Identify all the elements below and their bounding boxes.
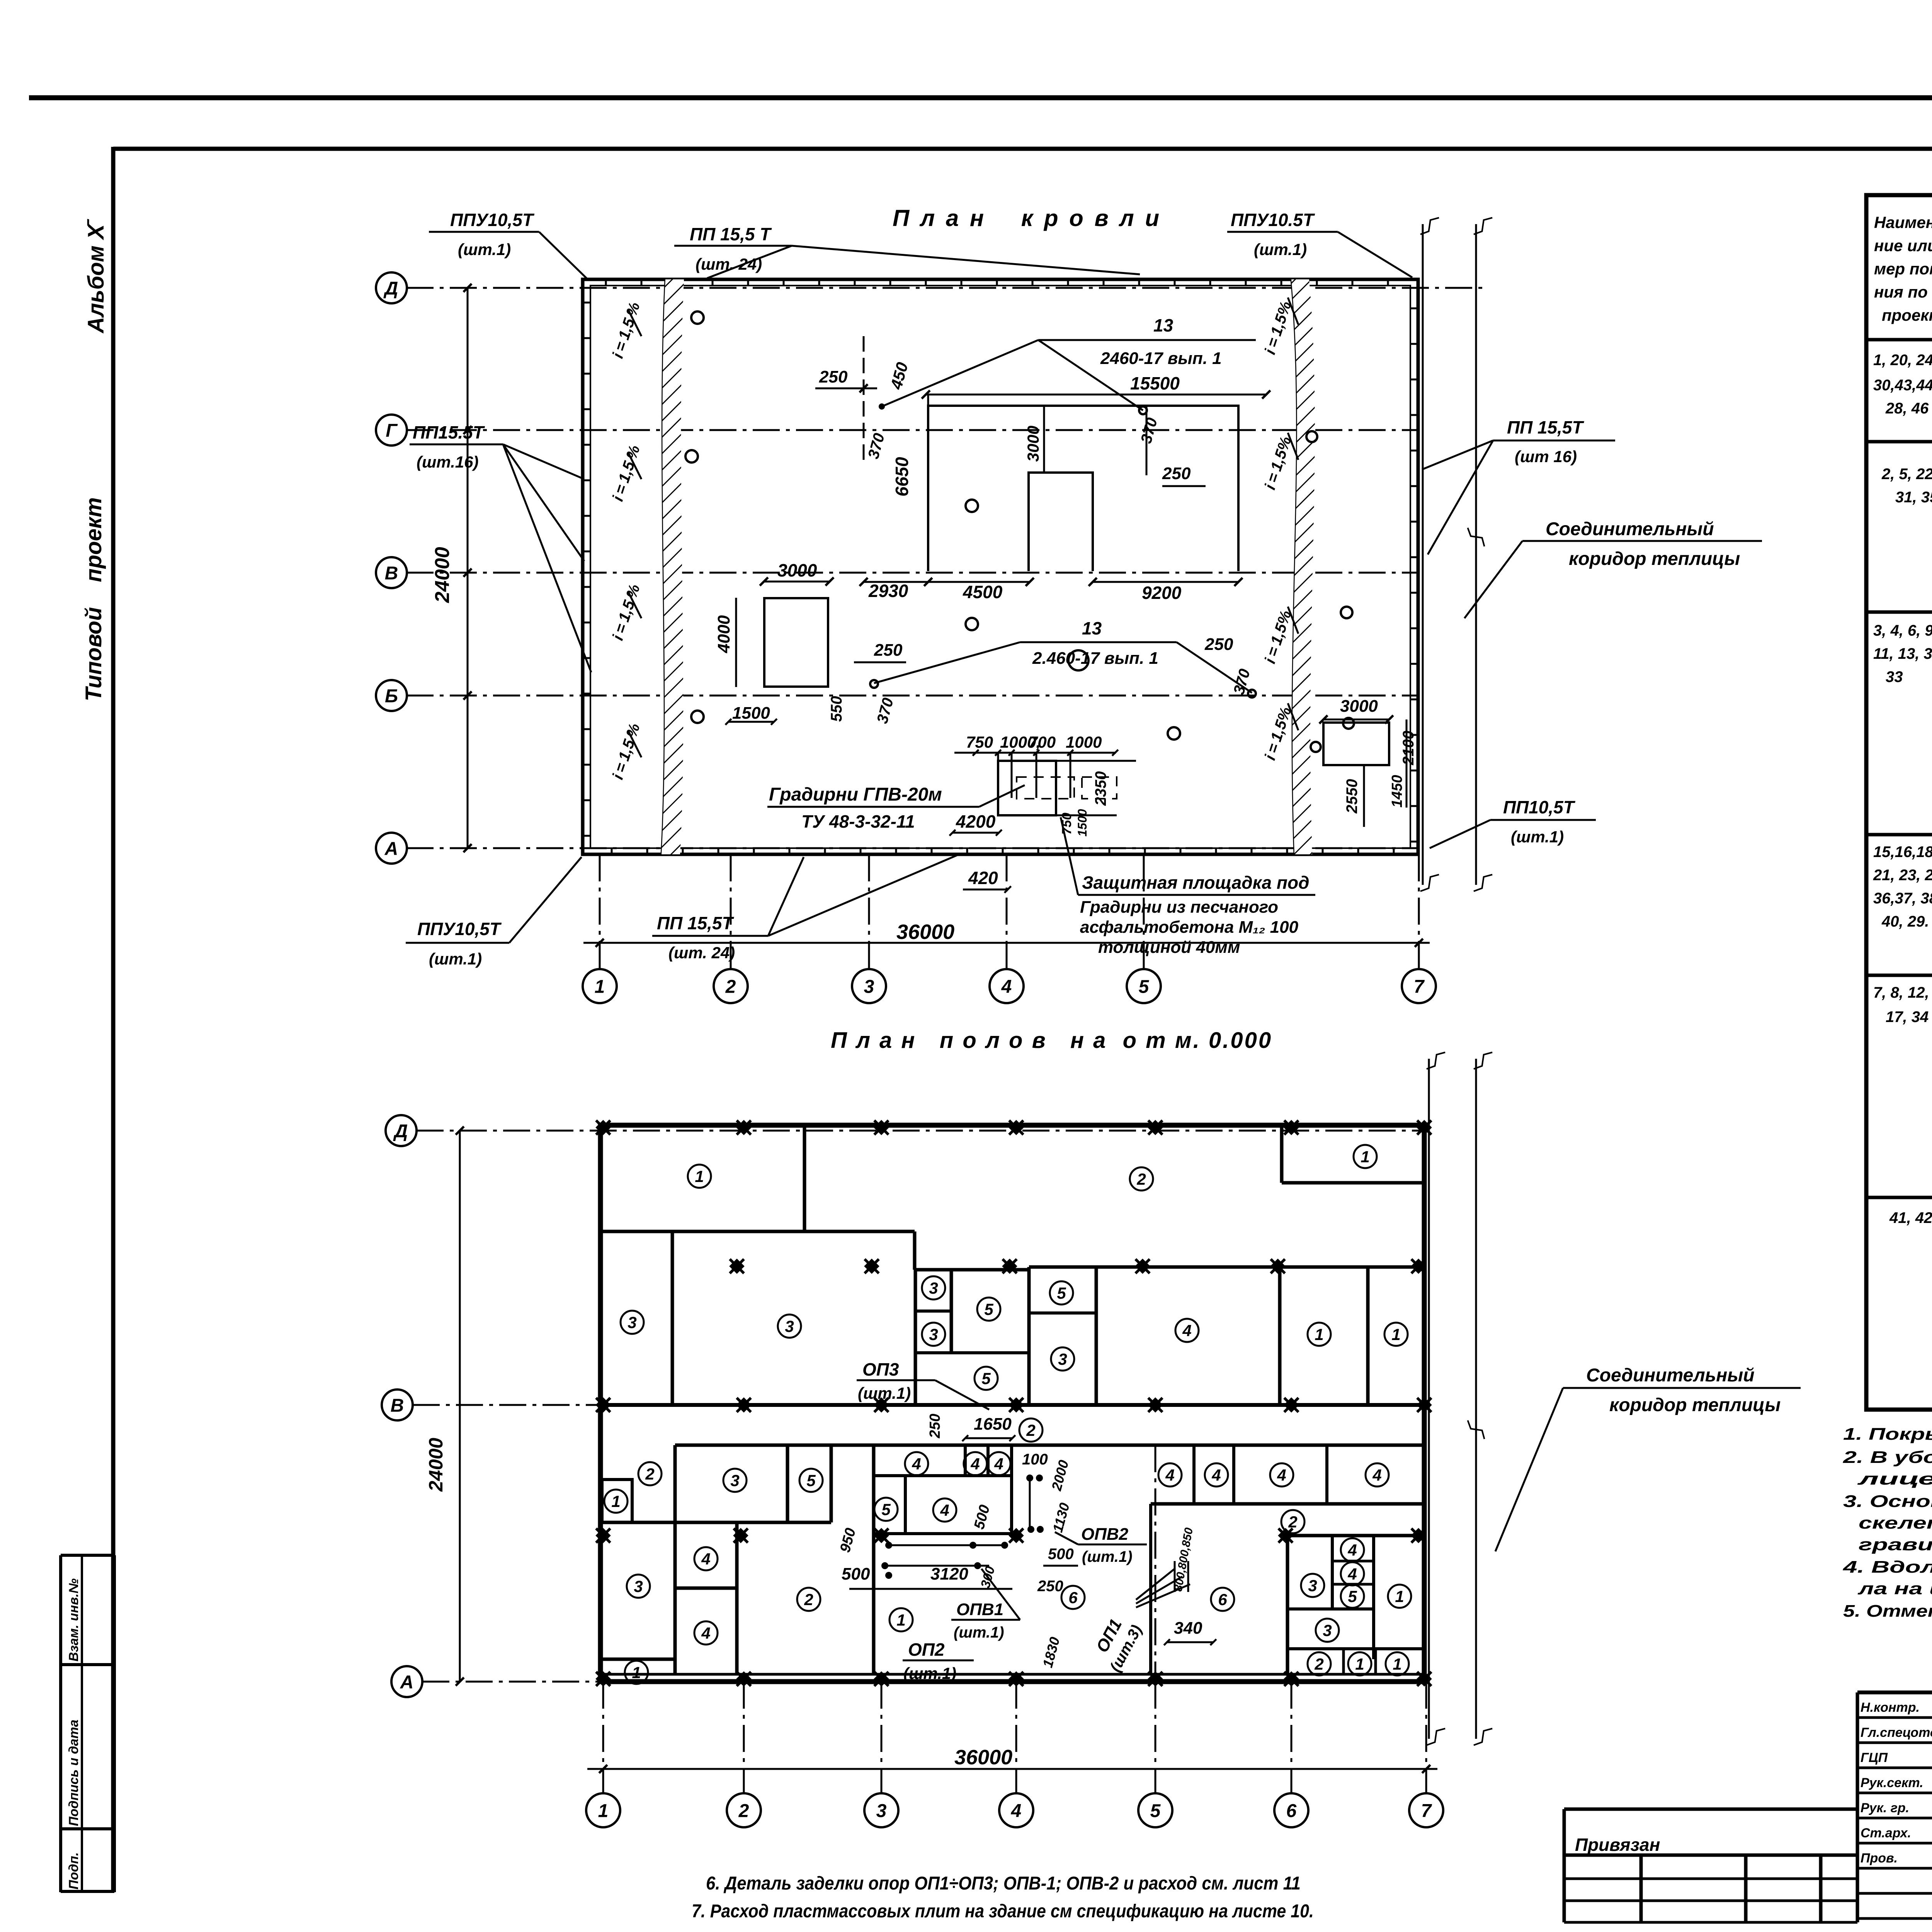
column mark intermediate row 2 x=1917 bbox=[726, 1521, 755, 1550]
roof dimension line 36000 bbox=[583, 942, 1430, 944]
roof drain/ring circle at 3405,1933 bbox=[1311, 742, 1321, 752]
roof drain/ring circle at 3395,1130 bbox=[1306, 431, 1317, 442]
svg-text:6650: 6650 bbox=[892, 457, 912, 497]
roof right equipment rect bbox=[1323, 723, 1389, 765]
roof column circle 1 bbox=[583, 969, 617, 1003]
floor column circle 4 bbox=[999, 1793, 1033, 1827]
floor column circle 7 bbox=[1409, 1793, 1443, 1827]
floor axis line А bbox=[422, 1681, 1424, 1683]
svg-text:4000: 4000 bbox=[714, 615, 733, 653]
svg-text:3, 4, 6, 9, 10,: 3, 4, 6, 9, 10, bbox=[1873, 622, 1932, 639]
floor room type 3 circle at 1636,3422 bbox=[621, 1311, 644, 1334]
svg-text:2, 5, 22, 25: 2, 5, 22, 25 bbox=[1881, 466, 1932, 483]
svg-text:толщиной 40мм: толщиной 40мм bbox=[1098, 938, 1240, 957]
svg-text:3: 3 bbox=[929, 1279, 938, 1297]
svg-text:П л а н к р о в л и: П л а н к р о в л и bbox=[893, 205, 1162, 231]
floor room type 4 circle at 2445,3908 bbox=[933, 1498, 956, 1522]
svg-text:4: 4 bbox=[1165, 1466, 1174, 1484]
floor outer wall bbox=[600, 1125, 1424, 1682]
svg-text:1: 1 bbox=[1315, 1325, 1323, 1344]
svg-text:3: 3 bbox=[785, 1317, 794, 1335]
svg-text:Пров.: Пров. bbox=[1861, 1851, 1898, 1866]
svg-text:250: 250 bbox=[819, 367, 848, 386]
floor room type 4 circle at 3072,3443 bbox=[1175, 1319, 1199, 1342]
floor wall: divider y3398 bbox=[1029, 1311, 1096, 1315]
roof drain/ring circle at 3240,1795 bbox=[1248, 690, 1256, 697]
svg-text:Градирни из песчаного: Градирни из песчаного bbox=[1080, 898, 1278, 917]
column mark intermediate row 2 x=1561 bbox=[589, 1521, 617, 1550]
floor room type 4 circle at 3148,3817 bbox=[1205, 1463, 1228, 1486]
svg-text:1: 1 bbox=[1391, 1325, 1400, 1344]
column mark intermediate row 2 x=3671 bbox=[1404, 1521, 1433, 1550]
roof drain/ring circle at 3038,1898 bbox=[1168, 727, 1180, 740]
roof wall panel ticks top bbox=[605, 279, 607, 286]
svg-text:2: 2 bbox=[1136, 1170, 1146, 1188]
floor wall: x2343 bbox=[904, 1476, 907, 1534]
floor room type 2 circle at 3414,4306 bbox=[1308, 1652, 1331, 1675]
svg-text:В: В bbox=[385, 563, 398, 583]
floor room type 4 circle at 2585,3788 bbox=[987, 1452, 1010, 1475]
svg-text:21, 23, 26,: 21, 23, 26, bbox=[1873, 867, 1932, 884]
svg-text:13: 13 bbox=[1153, 315, 1173, 335]
roof vertical dimension 24000 bbox=[467, 288, 469, 848]
column mark intermediate row 1 x=2957 bbox=[1128, 1252, 1157, 1281]
svg-text:асфальтобетона М₁₂ 100: асфальтобетона М₁₂ 100 bbox=[1080, 918, 1299, 937]
roof column axis stubs and circles bbox=[599, 854, 601, 968]
svg-text:5: 5 bbox=[1139, 976, 1150, 997]
svg-text:3120: 3120 bbox=[930, 1565, 968, 1583]
svg-text:3: 3 bbox=[1058, 1350, 1067, 1368]
svg-text:2460-17 вып. 1: 2460-17 вып. 1 bbox=[1100, 349, 1222, 368]
roof drain/ring circle at 1805,1855 bbox=[691, 711, 704, 723]
svg-text:Д: Д bbox=[393, 1121, 408, 1141]
column mark axis Д x=2990 bbox=[1141, 1113, 1170, 1142]
svg-text:(шт.1): (шт.1) bbox=[858, 1384, 911, 1402]
svg-text:ПП 15,5Т: ПП 15,5Т bbox=[1507, 417, 1584, 437]
column mark axis А x=2281 bbox=[867, 1665, 896, 1693]
column mark axis В x=1561 bbox=[589, 1391, 617, 1419]
floor wall: x2261 vertical bbox=[872, 1445, 876, 1674]
roof column circle 5 bbox=[1127, 969, 1161, 1003]
svg-text:Привязан: Привязан bbox=[1575, 1835, 1660, 1855]
floor wall: top-right notch vertical bbox=[1280, 1125, 1284, 1183]
floor wall: y3940 центр bbox=[675, 1521, 831, 1524]
floor wall: x1907 vertical bbox=[735, 1522, 739, 1674]
column mark axis Д x=2630 bbox=[1002, 1113, 1031, 1142]
svg-text:(шт.1): (шт.1) bbox=[1511, 828, 1564, 846]
svg-text:5: 5 bbox=[984, 1300, 993, 1318]
floor room type 3 circle at 1902,3831 bbox=[723, 1469, 747, 1492]
roof axis circle Д bbox=[376, 272, 407, 303]
floor wall: y3940 left bbox=[600, 1521, 675, 1524]
svg-text:500: 500 bbox=[842, 1565, 870, 1583]
column mark intermediate row 1 x=1907 bbox=[723, 1252, 751, 1281]
svg-text:(шт.1): (шт.1) bbox=[429, 950, 482, 968]
svg-text:А: А bbox=[384, 838, 398, 859]
greenhouse corridor lines (roof) bbox=[1422, 224, 1424, 885]
svg-text:В: В bbox=[391, 1395, 404, 1416]
floor axis line Д bbox=[417, 1130, 1424, 1132]
column mark axis В x=2990 bbox=[1141, 1391, 1170, 1419]
floor wall: rooms 3/5 band verticals bbox=[786, 1445, 789, 1522]
floor wall: room1/room2 divider vertical bbox=[803, 1125, 806, 1231]
floor wall: 4-band y3892 right bbox=[1151, 1502, 1424, 1506]
svg-text:2: 2 bbox=[645, 1465, 654, 1483]
floor room type 1 circle at 3414,3453 bbox=[1308, 1323, 1331, 1346]
floor wall: x3332 vertical bbox=[1286, 1536, 1289, 1674]
roof slope hatch right bbox=[1291, 279, 1315, 854]
svg-text:А: А bbox=[400, 1672, 414, 1692]
floor room type 2 circle at 2093,4139 bbox=[797, 1588, 820, 1611]
svg-text:Ст.арх.: Ст.арх. bbox=[1861, 1826, 1911, 1840]
column mark intermediate row 2 x=2630 bbox=[1002, 1521, 1031, 1550]
svg-text:3: 3 bbox=[1308, 1577, 1317, 1595]
svg-text:7: 7 bbox=[1421, 1801, 1432, 1821]
svg-text:250: 250 bbox=[1037, 1578, 1063, 1595]
roof drain/ring circle at 1790,1181 bbox=[685, 450, 698, 463]
svg-text:Защитная площадка под: Защитная площадка под bbox=[1082, 872, 1310, 893]
floor vertical dimension 24000 bbox=[459, 1131, 461, 1682]
svg-text:Г: Г bbox=[386, 420, 398, 441]
column mark axis А x=3686 bbox=[1410, 1665, 1439, 1693]
floor room type 3 circle at 2416,3453 bbox=[922, 1323, 945, 1346]
svg-text:(шт.16): (шт.16) bbox=[417, 453, 479, 471]
svg-text:31, 35: 31, 35 bbox=[1895, 489, 1932, 506]
roof axis line А bbox=[406, 847, 1418, 849]
roof wall panel ticks left bbox=[583, 302, 590, 304]
svg-text:ния по: ния по bbox=[1874, 283, 1928, 301]
svg-text:(шт.1): (шт.1) bbox=[1082, 1548, 1133, 1565]
svg-text:Н.контр.: Н.контр. bbox=[1861, 1700, 1920, 1715]
floor wall: small rooms divider y3393 bbox=[915, 1310, 951, 1313]
svg-text:40, 29.: 40, 29. bbox=[1881, 913, 1929, 930]
floor room type 1 circle at 3613,3453 bbox=[1384, 1323, 1408, 1346]
floor room type 1 circle at 3616,4306 bbox=[1386, 1652, 1409, 1675]
svg-text:5: 5 bbox=[981, 1369, 991, 1388]
svg-text:5: 5 bbox=[881, 1500, 891, 1519]
floor wall: y4267 bbox=[1287, 1647, 1424, 1650]
floor column circle 2 bbox=[727, 1793, 761, 1827]
floor column circle 5 bbox=[1138, 1793, 1172, 1827]
svg-text:2: 2 bbox=[1314, 1655, 1323, 1673]
svg-text:мер помеще-: мер помеще- bbox=[1874, 260, 1932, 278]
svg-text:6. Деталь заделки опор ОП1: 6. Деталь заделки опор ОП1÷ОП3; ОПВ-1; О… bbox=[706, 1873, 1301, 1894]
floor room type 1 circle at 3622,4131 bbox=[1388, 1585, 1411, 1608]
floor room type 1 circle at 1647,4328 bbox=[625, 1661, 648, 1684]
frame left border bbox=[111, 147, 116, 1892]
column mark axis А x=2630 bbox=[1002, 1665, 1031, 1693]
svg-text:5: 5 bbox=[1057, 1284, 1066, 1302]
svg-text:500: 500 bbox=[1048, 1546, 1074, 1563]
floor wall: divider x3540 bbox=[1366, 1267, 1370, 1405]
floor room type 3 circle at 3397,4103 bbox=[1301, 1574, 1324, 1597]
roof drain/ring circle at 2515,1615 bbox=[966, 618, 978, 630]
column mark intermediate row 1 x=3671 bbox=[1404, 1252, 1433, 1281]
svg-text:(шт.1): (шт.1) bbox=[1254, 240, 1307, 259]
floor room type 2 circle at 3346,3938 bbox=[1281, 1510, 1304, 1533]
svg-text:30,43,44,45.: 30,43,44,45. bbox=[1873, 377, 1932, 394]
floor wall: bottom small verticals bbox=[1342, 1649, 1345, 1674]
svg-text:ПП15.5Т: ПП15.5Т bbox=[413, 422, 485, 442]
floor wall: y3974 right bbox=[1286, 1534, 1424, 1537]
floor wall: step vertical x2367 bbox=[913, 1231, 917, 1270]
roof axis circle Г bbox=[376, 415, 407, 446]
svg-text:550: 550 bbox=[828, 696, 845, 722]
roof axis line Д bbox=[406, 287, 1482, 289]
roof wall panel ticks bottom bbox=[611, 848, 613, 854]
svg-text:лицевую поверхность.: лицевую поверхность. bbox=[1857, 1469, 1932, 1488]
svg-text:5: 5 bbox=[1348, 1587, 1357, 1605]
svg-text:Б: Б bbox=[385, 686, 398, 706]
floor column circle 6 bbox=[1274, 1793, 1308, 1827]
svg-text:1450: 1450 bbox=[1389, 775, 1405, 808]
svg-text:4: 4 bbox=[1011, 1801, 1022, 1821]
floor room type 4 circle at 3500,4073 bbox=[1341, 1562, 1364, 1585]
svg-text:340: 340 bbox=[1174, 1619, 1202, 1638]
svg-text:1500: 1500 bbox=[732, 704, 770, 723]
floor wall: 4-rooms band top right of x2261 bbox=[874, 1474, 1012, 1477]
floor wall: left rooms divider x1740 bbox=[671, 1231, 674, 1405]
floor room type 1 circle at 2332,4192 bbox=[889, 1608, 913, 1631]
roof axis line Г bbox=[406, 429, 1418, 431]
corridor mid break (floor) bbox=[1468, 1417, 1485, 1442]
column mark axis А x=2990 bbox=[1141, 1665, 1170, 1693]
svg-text:(шт.1): (шт.1) bbox=[458, 240, 511, 259]
floor wall: right band top y3279 bbox=[1029, 1265, 1424, 1269]
svg-text:5. Отметки, места расположен: 5. Отметки, места расположения трапов - … bbox=[1843, 1602, 1932, 1621]
floor room type 4 circle at 3028,3817 bbox=[1158, 1463, 1182, 1486]
roof drain/ring circle at 3490,1872 bbox=[1343, 718, 1354, 729]
floor room type 4 circle at 3564,3817 bbox=[1366, 1463, 1389, 1486]
svg-text:3000: 3000 bbox=[1024, 426, 1042, 462]
svg-text:1: 1 bbox=[632, 1663, 641, 1682]
svg-text:ПП10,5Т: ПП10,5Т bbox=[1503, 797, 1576, 817]
svg-text:4: 4 bbox=[970, 1455, 980, 1473]
floor room type 1 circle at 3533,2993 bbox=[1354, 1145, 1377, 1168]
column mark axis А x=3342 bbox=[1277, 1665, 1306, 1693]
floor room type 2 circle at 2954,3051 bbox=[1130, 1167, 1153, 1190]
svg-text:24000: 24000 bbox=[425, 1438, 447, 1492]
svg-text:41, 42: 41, 42 bbox=[1889, 1209, 1932, 1226]
floor axis 5 segment in plan bbox=[1155, 1445, 1156, 1674]
svg-text:6: 6 bbox=[1286, 1801, 1297, 1821]
column mark axis В x=2630 bbox=[1002, 1391, 1031, 1419]
column mark axis Д x=1925 bbox=[730, 1113, 758, 1142]
floor axis circle А bbox=[391, 1666, 422, 1697]
svg-text:250: 250 bbox=[1204, 635, 1233, 654]
svg-text:1, 20, 24, 27.: 1, 20, 24, 27. bbox=[1873, 352, 1932, 369]
roof column circle 2 bbox=[714, 969, 748, 1003]
floor wall: divider x2837 bbox=[1095, 1267, 1098, 1405]
floor dimension line 36000 bbox=[587, 1768, 1437, 1770]
svg-text:1: 1 bbox=[1393, 1655, 1401, 1673]
floor wall: y3969 bbox=[874, 1532, 1012, 1535]
column mark axis Д x=2281 bbox=[867, 1113, 896, 1142]
svg-text:4: 4 bbox=[701, 1624, 710, 1642]
roof wall panel ticks right bbox=[1410, 308, 1418, 310]
roof inner wall line bbox=[590, 286, 1410, 848]
svg-text:15500: 15500 bbox=[1130, 373, 1180, 393]
svg-text:11, 13, 32,: 11, 13, 32, bbox=[1873, 645, 1932, 662]
svg-text:2350: 2350 bbox=[1092, 771, 1109, 806]
column mark intermediate row 2 x=2281 bbox=[867, 1521, 896, 1550]
roof drain/ring circle at 3485,1585 bbox=[1341, 607, 1352, 618]
svg-text:17, 34: 17, 34 bbox=[1886, 1009, 1929, 1026]
roof drain/ring circle at 2958,1062 bbox=[1139, 406, 1147, 414]
column mark axis В x=1925 bbox=[730, 1391, 758, 1419]
svg-text:4200: 4200 bbox=[956, 811, 996, 832]
svg-text:24000: 24000 bbox=[431, 547, 454, 603]
svg-text:250: 250 bbox=[927, 1414, 943, 1439]
floor wall: corridor bottom y3740 bbox=[675, 1444, 1424, 1447]
svg-text:(шт 16): (шт 16) bbox=[1515, 447, 1577, 466]
roof slope line right bbox=[1291, 279, 1297, 854]
floor room type 4 circle at 2372,3788 bbox=[905, 1452, 928, 1475]
floor wall: step horizontal y3286 bbox=[915, 1268, 1029, 1272]
svg-text:2. В уборных и душевых к: 2. В уборных и душевых керамические плит… bbox=[1843, 1448, 1932, 1467]
roof axis circle Б bbox=[376, 680, 407, 711]
floor wall: small rooms x2369 bbox=[914, 1270, 917, 1405]
roof inner hall rectangle with notch bbox=[928, 406, 1238, 571]
svg-text:2: 2 bbox=[1026, 1421, 1035, 1439]
floor room type 4 circle at 1827,4034 bbox=[694, 1547, 718, 1570]
floor room type 4 circle at 3500,4011 bbox=[1341, 1538, 1364, 1561]
floor column circle 1 bbox=[586, 1793, 620, 1827]
svg-text:Рук. гр.: Рук. гр. bbox=[1861, 1801, 1909, 1815]
svg-text:36000: 36000 bbox=[954, 1746, 1012, 1769]
floor column axis stubs bbox=[602, 1682, 604, 1793]
svg-text:4. Вдоль наружных стен- зда: 4. Вдоль наружных стен- здания по осям 1… bbox=[1843, 1558, 1932, 1577]
floor room type 5 circle at 2099,3831 bbox=[799, 1469, 823, 1492]
svg-text:2550: 2550 bbox=[1344, 779, 1361, 814]
floor room type 1 circle at 1810,3044 bbox=[688, 1165, 711, 1188]
svg-text:Альбом Х̄: Альбом Х̄ bbox=[83, 219, 109, 334]
floor room type 1 circle at 3519,4306 bbox=[1348, 1652, 1371, 1675]
roof axis circle В bbox=[376, 557, 407, 588]
roof axis line В bbox=[406, 572, 1418, 574]
svg-text:3: 3 bbox=[634, 1577, 643, 1595]
svg-text:6: 6 bbox=[1218, 1590, 1227, 1609]
roof column circle 4 bbox=[990, 969, 1024, 1003]
svg-text:4: 4 bbox=[1001, 976, 1012, 997]
svg-text:36000: 36000 bbox=[896, 920, 954, 944]
floor wall: verticals 2498 2557 2618 bbox=[964, 1445, 967, 1476]
svg-text:коридор теплицы: коридор теплицы bbox=[1609, 1395, 1781, 1415]
svg-text:15,16,18,19,: 15,16,18,19, bbox=[1873, 844, 1932, 861]
svg-text:ГЦП: ГЦП bbox=[1861, 1750, 1888, 1765]
svg-text:1: 1 bbox=[896, 1611, 905, 1629]
protected pad dashed rects bbox=[1017, 777, 1074, 799]
svg-text:(шт.1): (шт.1) bbox=[903, 1664, 956, 1682]
svg-text:коридор теплицы: коридор теплицы bbox=[1569, 549, 1740, 569]
stamp column bottom bbox=[61, 1890, 114, 1893]
floor room type 3 circle at 2043,3432 bbox=[778, 1315, 801, 1338]
floor wall: top-right notch horizontal bbox=[1282, 1181, 1424, 1185]
svg-text:250: 250 bbox=[874, 641, 903, 660]
stamp column box bbox=[61, 1554, 114, 1557]
svg-text:5: 5 bbox=[806, 1471, 816, 1490]
svg-text:3: 3 bbox=[929, 1325, 938, 1344]
svg-text:13: 13 bbox=[1082, 618, 1102, 638]
floor wall: left room1 box bbox=[602, 1480, 632, 1522]
svg-text:ПП 15,5 Т: ПП 15,5 Т bbox=[690, 224, 772, 244]
svg-text:700: 700 bbox=[1029, 733, 1056, 751]
floor room type 5 circle at 3500,4131 bbox=[1341, 1585, 1364, 1608]
svg-text:4: 4 bbox=[1182, 1321, 1191, 1340]
svg-text:1: 1 bbox=[611, 1492, 620, 1510]
floor room type 3 circle at 3435,4219 bbox=[1316, 1619, 1339, 1642]
svg-text:Соединительный: Соединительный bbox=[1586, 1365, 1755, 1386]
svg-text:36,37, 38,39: 36,37, 38,39 bbox=[1873, 890, 1932, 907]
svg-text:Подп.: Подп. bbox=[66, 1852, 81, 1889]
svg-text:ОП2: ОП2 bbox=[908, 1639, 945, 1660]
svg-text:7, 8, 12, 14,: 7, 8, 12, 14, bbox=[1873, 984, 1932, 1001]
svg-text:3000: 3000 bbox=[1340, 697, 1378, 716]
floor wall: top-left room bottom bbox=[600, 1230, 915, 1233]
svg-text:Типовой проект: Типовой проект bbox=[81, 497, 106, 701]
floor column circle 3 bbox=[864, 1793, 898, 1827]
svg-text:5: 5 bbox=[1150, 1801, 1161, 1821]
floor room type 3 circle at 2750,3517 bbox=[1051, 1347, 1074, 1371]
column mark axis Д x=3342 bbox=[1277, 1113, 1306, 1142]
svg-text:Подпись и дата: Подпись и дата bbox=[66, 1719, 81, 1826]
floor room type 6 circle at 2777,4134 bbox=[1061, 1586, 1085, 1609]
floor wall: inner bottom line bbox=[600, 1673, 1424, 1676]
floor wall: y4040 y4100 y4164 small bbox=[1332, 1560, 1374, 1563]
floor room type 2 circle at 1682,3814 bbox=[638, 1462, 662, 1485]
table row lines bbox=[1866, 338, 1932, 342]
svg-text:ОП3: ОП3 bbox=[862, 1359, 899, 1379]
svg-text:Градирни ГПВ-20м: Градирни ГПВ-20м bbox=[769, 784, 942, 805]
svg-text:Взам. инв.№: Взам. инв.№ bbox=[66, 1578, 81, 1662]
svg-text:1: 1 bbox=[598, 1801, 609, 1821]
title block staff table bbox=[1857, 1692, 1932, 1918]
svg-text:750: 750 bbox=[966, 733, 993, 751]
column mark axis Д x=1561 bbox=[589, 1113, 617, 1142]
svg-text:4500: 4500 bbox=[963, 582, 1003, 602]
svg-text:250: 250 bbox=[1162, 464, 1191, 483]
svg-text:3. Основанием полов являет: 3. Основанием полов является уплотненный… bbox=[1843, 1492, 1932, 1511]
floor room type 4 circle at 2524,3788 bbox=[964, 1452, 987, 1475]
column mark intermediate row 1 x=2256 bbox=[857, 1252, 886, 1281]
floor room type 5 circle at 2552,3567 bbox=[975, 1367, 998, 1390]
floor wall: small rooms divider y3501 bbox=[915, 1351, 1029, 1354]
svg-text:2.460-17 вып. 1: 2.460-17 вып. 1 bbox=[1032, 649, 1158, 668]
svg-text:420: 420 bbox=[968, 868, 998, 888]
svg-text:(шт. 24): (шт. 24) bbox=[668, 944, 735, 962]
svg-text:3: 3 bbox=[730, 1471, 739, 1490]
roof drain/ring circle at 2791,1709 bbox=[1068, 650, 1088, 670]
svg-text:ОПВ2: ОПВ2 bbox=[1081, 1525, 1129, 1544]
svg-text:1: 1 bbox=[1361, 1148, 1369, 1166]
column mark intermediate row 1 x=2613 bbox=[995, 1252, 1024, 1281]
floor room type 6 circle at 3164,4139 bbox=[1211, 1588, 1234, 1611]
roof slope hatch left bbox=[662, 279, 684, 854]
roof column circle 7 bbox=[1402, 969, 1436, 1003]
floor wall: y4110 bbox=[675, 1587, 737, 1590]
svg-text:33: 33 bbox=[1886, 668, 1903, 685]
floor wall: small rooms x2462 bbox=[950, 1270, 953, 1353]
column mark axis В x=2281 bbox=[867, 1391, 896, 1419]
floor room type 5 circle at 2293,3906 bbox=[874, 1498, 898, 1521]
floor room type 3 circle at 1652,4105 bbox=[627, 1575, 650, 1598]
floor wall: x3448 x3555 verticals bbox=[1331, 1536, 1334, 1609]
привязан section bbox=[1564, 1808, 1857, 1811]
svg-text:3: 3 bbox=[1323, 1621, 1332, 1639]
svg-text:2100: 2100 bbox=[1400, 731, 1417, 765]
column mark intermediate row 2 x=3327 bbox=[1271, 1521, 1300, 1550]
svg-text:7. Расход пластмассовых пл: 7. Расход пластмассовых плит на здание с… bbox=[692, 1901, 1314, 1922]
